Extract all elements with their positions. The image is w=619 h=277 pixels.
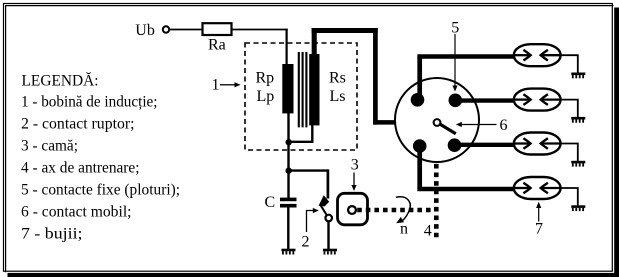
- cam shaft circle: [348, 206, 356, 214]
- wire HT right vertical: [373, 28, 378, 125]
- contact breaker fixed contact blob: [319, 195, 330, 206]
- arrow 7 to plug 4: [536, 202, 541, 222]
- border frame second left line: [5, 5, 7, 272]
- wire secondary return: [289, 141, 314, 143]
- svg-text:1 - bobină de inducție;: 1 - bobină de inducție;: [21, 94, 158, 111]
- svg-text:Ls: Ls: [330, 88, 346, 105]
- wire plug 3 to ground: [561, 144, 578, 162]
- wire capacitor to ground: [287, 208, 289, 250]
- border frame second top line: [5, 5, 614, 7]
- shaft dotted horizontal: [357, 208, 433, 213]
- wire plug 1 to ground: [561, 55, 578, 73]
- node junction breaker branch: [286, 167, 292, 173]
- core lines: [299, 52, 307, 127]
- terminal Ub: [163, 26, 169, 32]
- svg-text:7 - bujii;: 7 - bujii;: [21, 226, 83, 243]
- spark plug 2: [514, 89, 561, 111]
- svg-text:3 - camă;: 3 - camă;: [21, 138, 78, 155]
- wire to plug 1: [417, 54, 514, 59]
- contact plot NE: [449, 94, 463, 108]
- svg-text:3: 3: [351, 156, 359, 173]
- primary winding Lp bar: [282, 64, 293, 113]
- wire secondary top lead: [312, 28, 317, 54]
- wire to plug 2: [455, 98, 514, 102]
- node junction coil bottom: [286, 139, 292, 145]
- contact breaker lever: [320, 205, 327, 215]
- wire to breaker: [289, 169, 329, 171]
- rotation arrow n: [396, 197, 410, 223]
- arrow 1 to coil box: [220, 82, 241, 87]
- wire plug 4 to ground: [561, 188, 578, 206]
- contact plot SE: [448, 138, 462, 152]
- contact plot SW: [413, 139, 427, 153]
- svg-text:6 - contact mobil;: 6 - contact mobil;: [21, 204, 132, 221]
- svg-text:C: C: [265, 194, 276, 211]
- wire secondary bottom lead: [311, 125, 313, 142]
- wire to plug 3: [455, 143, 515, 147]
- svg-text:5: 5: [451, 20, 459, 37]
- ground plug 3: [571, 161, 585, 167]
- wire plug 2 to ground: [561, 100, 578, 118]
- contact plot NW: [411, 93, 425, 107]
- wire SW contact down: [417, 146, 422, 189]
- svg-text:6: 6: [500, 117, 508, 134]
- svg-text:5 - contacte fixe (ploturi);: 5 - contacte fixe (ploturi);: [21, 182, 180, 199]
- ground plug 1: [571, 73, 585, 79]
- rotor center: [434, 119, 441, 126]
- spark plug 4: [514, 177, 561, 199]
- distributor body circle: [395, 78, 479, 162]
- wire breaker to ground: [327, 221, 329, 249]
- frame shadow right: [614, 8, 619, 277]
- secondary winding Ls bar: [309, 54, 319, 125]
- svg-text:Rp: Rp: [256, 70, 275, 87]
- wire primary bottom lead: [287, 113, 289, 198]
- wire down to primary: [286, 29, 288, 65]
- rotor arm 6: [440, 124, 456, 134]
- svg-text:LEGENDĂ:: LEGENDĂ:: [22, 71, 99, 90]
- svg-text:Ra: Ra: [208, 37, 226, 54]
- resistor Ra: [203, 23, 232, 35]
- svg-text:Rs: Rs: [329, 70, 346, 87]
- svg-text:Ub: Ub: [135, 22, 155, 39]
- ground capacitor: [281, 249, 295, 255]
- wire HT top horizontal: [312, 28, 378, 33]
- svg-text:Lp: Lp: [257, 88, 275, 105]
- ground plug 2: [571, 117, 585, 123]
- arrow 5 to NE contact: [452, 34, 457, 92]
- capacitor C plate 2: [280, 204, 297, 208]
- shaft dotted vertical 4: [434, 130, 439, 241]
- ground breaker: [323, 249, 337, 255]
- cam box: [338, 193, 368, 225]
- wire NW contact up: [417, 57, 422, 100]
- wire HT to rotor: [373, 120, 434, 125]
- svg-text:4 - ax de antrenare;: 4 - ax de antrenare;: [21, 160, 140, 177]
- svg-text:n: n: [400, 220, 408, 237]
- spark plug 1: [514, 44, 561, 66]
- arrow 6 to rotor: [456, 122, 497, 127]
- svg-text:4: 4: [424, 223, 432, 240]
- arrow 2 to breaker: [307, 208, 319, 232]
- contact breaker pivot: [325, 215, 332, 222]
- wire Ub to Ra: [169, 29, 202, 31]
- wire breaker feed down: [327, 169, 330, 198]
- svg-text:1: 1: [212, 77, 220, 94]
- wire to plug 4: [417, 187, 514, 192]
- svg-text:7: 7: [535, 221, 543, 238]
- capacitor C plate 1: [280, 198, 297, 202]
- spark plug 3: [514, 133, 561, 155]
- svg-text:2 - contact ruptor;: 2 - contact ruptor;: [21, 116, 135, 133]
- induction coil dashed box U1: [245, 43, 357, 150]
- ground plug 4: [571, 205, 585, 211]
- wire Ra to coil: [232, 29, 288, 31]
- svg-text:2: 2: [302, 234, 310, 251]
- arrow 3 to cam: [351, 173, 356, 192]
- frame shadow bottom: [8, 273, 619, 277]
